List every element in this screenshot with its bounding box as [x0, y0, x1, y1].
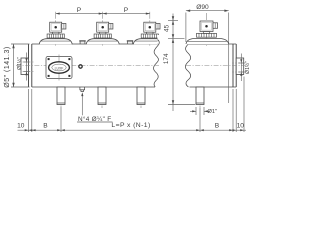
dim O1 1/2" left socket	[24, 53, 30, 81]
outlet stub S3	[137, 87, 145, 108]
coil 4	[200, 21, 213, 32]
outlet stub S2	[98, 87, 106, 108]
outlet stub S4	[196, 87, 204, 108]
dome 4	[186, 39, 229, 45]
svg-text:N°4 Ø¼" F: N°4 Ø¼" F	[78, 115, 111, 123]
body right segment	[189, 44, 236, 87]
svg-text:174: 174	[163, 53, 170, 64]
body centerline right	[186, 65, 247, 67]
outlet stub S1	[57, 87, 65, 108]
dim O5" (141.3) left	[11, 44, 30, 87]
valve V2	[86, 12, 119, 46]
bottom drain boss	[80, 87, 86, 92]
neck 4	[203, 32, 209, 34]
plug dot	[79, 65, 82, 68]
valve V4 (side view)	[186, 13, 229, 46]
left inlet socket	[21, 58, 29, 75]
break line right segment	[185, 44, 190, 87]
left end cap	[29, 44, 32, 87]
dim O1" stub 4	[190, 107, 210, 115]
svg-text:L=P x (N-1): L=P x (N-1)	[111, 122, 150, 129]
svg-text:B: B	[43, 122, 48, 129]
connector 4	[213, 23, 218, 29]
break line left segment	[154, 39, 160, 88]
valve V1	[39, 12, 72, 46]
dim P (pitch) top	[56, 13, 150, 15]
body centerline	[16, 65, 160, 67]
bottom dimension chain	[18, 77, 247, 133]
right end cap	[233, 44, 236, 87]
svg-text:Ø1½": Ø1½"	[16, 57, 23, 70]
nameplate	[46, 55, 72, 81]
svg-text:10: 10	[237, 122, 245, 129]
right outlet socket	[236, 58, 244, 75]
top boss 1	[79, 41, 85, 44]
svg-text:LUXF: LUXF	[55, 66, 64, 70]
svg-text:P: P	[124, 7, 129, 14]
dim O90	[186, 11, 229, 103]
ribbed band 4	[197, 33, 217, 37]
leader N4	[77, 94, 113, 123]
svg-text:Ø5" (141.3): Ø5" (141.3)	[4, 46, 11, 87]
dim 45 / 174 vertical	[168, 14, 195, 112]
svg-text:P: P	[77, 7, 82, 14]
svg-text:10: 10	[17, 122, 25, 129]
svg-text:Ø1½": Ø1½"	[244, 61, 250, 74]
hidden bore lines left	[23, 62, 34, 72]
top boss 2	[127, 41, 133, 44]
manifold body left segment	[32, 44, 158, 87]
valve V3 (clipped by break)	[133, 12, 166, 46]
svg-text:45: 45	[163, 24, 170, 32]
svg-text:B: B	[215, 122, 220, 129]
dim O1 1/2" right socket	[239, 54, 246, 82]
svg-text:Ø90: Ø90	[196, 4, 209, 11]
hidden bore lines right	[232, 63, 243, 72]
svg-text:Ø1": Ø1"	[208, 109, 217, 115]
